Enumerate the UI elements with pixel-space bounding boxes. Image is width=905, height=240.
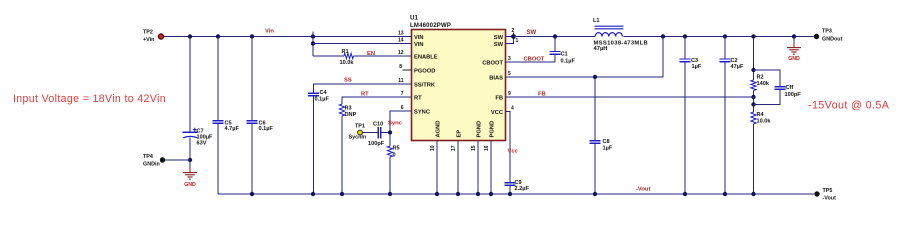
svg-text:SW: SW — [527, 30, 537, 36]
svg-text:Vin: Vin — [265, 29, 274, 35]
svg-text:0.1µF: 0.1µF — [561, 58, 576, 64]
svg-text:TP1: TP1 — [355, 124, 365, 130]
wire C7 top vertical — [189, 37, 191, 133]
wire R2 bottom to FB — [753, 91, 755, 98]
junction -Vout/R4 — [751, 192, 755, 196]
wire SYNC pin6 — [390, 111, 412, 133]
svg-text:R3: R3 — [345, 106, 352, 112]
wire C7 bottom vertical — [189, 138, 191, 161]
junction -Vout/pin15 — [476, 192, 480, 196]
capacitor C3 — [680, 58, 691, 60]
svg-text:47µF: 47µF — [731, 64, 744, 70]
svg-text:14: 14 — [398, 38, 404, 44]
junction R2 top rail — [751, 34, 755, 38]
wire Vin branch vertical — [312, 32, 314, 57]
svg-text:PGND: PGND — [477, 121, 483, 138]
junction Vin/C5 — [216, 34, 220, 38]
wire C3 vertical bottom — [684, 62, 686, 194]
wire Sync node to R5 — [389, 133, 391, 147]
wire FB — [506, 96, 754, 98]
wire GND rail L1 to TP3 — [624, 36, 814, 38]
svg-text:PGND: PGND — [490, 121, 496, 138]
test point TP3 GNDout — [814, 34, 819, 39]
wire SS — [314, 84, 412, 93]
wire FB node to lower node — [753, 97, 755, 105]
svg-text:C2: C2 — [731, 58, 738, 64]
resistor R1 — [344, 53, 354, 58]
svg-text:RT: RT — [414, 96, 422, 102]
wire PGND lead pin15 — [477, 141, 479, 195]
wire TP4 to GND node — [165, 159, 190, 161]
junction -Vout/pin17 — [456, 192, 460, 196]
resistor R2 — [751, 80, 756, 91]
svg-text:8: 8 — [399, 64, 402, 70]
svg-text:15: 15 — [471, 145, 477, 151]
wire EN left segment — [313, 55, 344, 57]
wire R4 bottom vertical — [753, 124, 755, 194]
svg-text:16: 16 — [484, 145, 490, 151]
wire C5 top vertical — [217, 37, 219, 121]
svg-text:11: 11 — [398, 78, 404, 84]
test point TP1 SycnIn — [358, 130, 363, 135]
capacitor C4 — [308, 92, 319, 94]
wire C8 bottom vertical — [594, 143, 596, 194]
svg-text:Cff: Cff — [786, 85, 794, 91]
svg-text:TP5: TP5 — [823, 188, 833, 194]
junction Vin/C6 — [250, 34, 254, 38]
svg-text:10.0k: 10.0k — [757, 119, 772, 125]
svg-text:2.2µF: 2.2µF — [515, 186, 530, 192]
wire C10 to Sync node — [381, 132, 390, 134]
svg-text:LM46002PWP: LM46002PWP — [410, 23, 451, 29]
svg-text:-Vout: -Vout — [636, 187, 650, 193]
svg-text:140k: 140k — [757, 81, 770, 87]
wire C3 vertical top — [684, 37, 686, 60]
junction -Vout/C6 — [250, 192, 254, 196]
svg-text:4.7µF: 4.7µF — [225, 126, 240, 132]
svg-text:SW: SW — [494, 35, 504, 41]
wire SW pin stubs — [506, 36, 514, 38]
svg-text:GND: GND — [184, 182, 196, 188]
junction -Vout/C2 — [723, 192, 727, 196]
svg-text:+Vin: +Vin — [143, 37, 154, 43]
svg-text:SW: SW — [494, 42, 504, 48]
svg-text:VIN: VIN — [414, 35, 424, 41]
wire PGND lead pin16 — [490, 141, 492, 195]
wire EN right segment — [354, 55, 412, 57]
svg-text:AGND: AGND — [436, 121, 442, 138]
junction -Vout/pin10 — [435, 192, 439, 196]
capacitor C6 — [247, 120, 258, 122]
junction -Vout/C3 — [683, 192, 687, 196]
wire RT — [342, 97, 412, 104]
svg-text:R5: R5 — [393, 146, 400, 152]
svg-text:C8: C8 — [603, 139, 610, 145]
svg-text:3: 3 — [508, 56, 511, 62]
junction -Vout/C4 — [311, 192, 315, 196]
junction SW/C1 — [553, 34, 557, 38]
svg-text:RT: RT — [361, 92, 369, 98]
test point TP5 -Vout — [814, 191, 819, 196]
svg-text:FB: FB — [538, 92, 546, 98]
svg-text:63V: 63V — [197, 141, 207, 147]
svg-text:0: 0 — [393, 153, 396, 159]
svg-text:5: 5 — [508, 71, 511, 77]
svg-text:6: 6 — [401, 105, 404, 111]
svg-text:C10: C10 — [373, 122, 383, 128]
junction C2 top — [723, 34, 727, 38]
wire VIN pin 14 — [313, 43, 412, 45]
svg-text:CBOOT: CBOOT — [482, 61, 503, 67]
junction Sync node — [388, 130, 392, 134]
svg-text:SYNC: SYNC — [414, 110, 430, 116]
junction -Vout/R5 — [388, 192, 392, 196]
svg-text:GNDout: GNDout — [822, 37, 843, 43]
svg-text:7: 7 — [401, 91, 404, 97]
capacitor C5 — [213, 120, 224, 122]
svg-text:C1: C1 — [561, 52, 568, 58]
svg-text:R2: R2 — [757, 75, 764, 81]
resistor R5 — [387, 146, 392, 157]
svg-text:4: 4 — [511, 106, 514, 112]
test point TP2 +Vin — [158, 34, 163, 39]
junction C3 top — [683, 34, 687, 38]
wire EP lead pin17 — [457, 141, 459, 195]
junction -Vout/R3 — [340, 192, 344, 196]
svg-text:FB: FB — [495, 96, 503, 102]
junction TP4/GND node — [188, 158, 192, 162]
op-amp U1 LM46002PWP body — [412, 30, 506, 141]
junction -Vout/C9 — [508, 192, 512, 196]
wire VCC stub — [506, 112, 511, 183]
svg-text:R1: R1 — [342, 49, 349, 55]
svg-text:TP3: TP3 — [822, 29, 832, 35]
capacitor C2 — [720, 58, 731, 60]
wire BIAS — [506, 37, 664, 78]
svg-text:Input Voltage = 18Vin to 42Vin: Input Voltage = 18Vin to 42Vin — [13, 93, 166, 105]
junction Cff bottom node — [751, 102, 755, 106]
capacitor C9 — [505, 182, 516, 184]
ground symbol GND output — [793, 37, 795, 43]
wire rail to R2 top — [753, 37, 755, 81]
wire R3 bottom vertical — [341, 116, 343, 194]
svg-text:CBOOT: CBOOT — [524, 57, 545, 63]
junction BIAS/C8 — [593, 75, 597, 79]
svg-text:Vcc: Vcc — [508, 149, 519, 155]
svg-text:13: 13 — [398, 31, 404, 37]
svg-text:BIAS: BIAS — [489, 76, 503, 82]
wire C9 bottom vertical — [509, 185, 511, 194]
wire TP1 to C10 — [363, 132, 378, 134]
junction GND symbol — [792, 34, 796, 38]
svg-text:EN: EN — [367, 51, 375, 57]
wire C8 top vertical — [594, 77, 596, 141]
wire C1 to CBOOT — [554, 54, 556, 62]
wire lower node to R4 — [753, 105, 755, 113]
wire Vin rail top — [164, 36, 412, 38]
wire R5 bottom vertical — [389, 157, 391, 194]
wire C6 bottom vertical — [251, 123, 253, 194]
junction BIAS riser — [661, 34, 665, 38]
svg-text:12: 12 — [398, 50, 404, 56]
junction SW pins — [511, 34, 516, 39]
svg-text:TP2: TP2 — [143, 30, 153, 36]
capacitor C7 polarized — [183, 131, 198, 133]
svg-text:PGOOD: PGOOD — [414, 69, 435, 75]
capacitor C1 — [554, 37, 556, 52]
svg-text:ENABLE: ENABLE — [414, 55, 438, 61]
svg-text:-15Vout @ 0.5A: -15Vout @ 0.5A — [808, 100, 890, 112]
svg-text:VIN: VIN — [414, 42, 424, 48]
capacitor C10 — [377, 127, 379, 138]
svg-text:9: 9 — [508, 91, 511, 97]
svg-text:0.1µF: 0.1µF — [315, 97, 330, 103]
svg-text:17: 17 — [451, 145, 457, 151]
svg-text:SS: SS — [344, 78, 352, 84]
svg-text:100pF: 100pF — [785, 92, 802, 98]
junction Vin/C7 — [188, 34, 192, 38]
svg-text:GND: GND — [788, 56, 800, 62]
test point TP4 GNDin — [160, 157, 165, 162]
svg-text:U1: U1 — [410, 15, 418, 22]
junction Vin branch upper — [311, 34, 315, 38]
svg-text:L1: L1 — [593, 18, 600, 24]
svg-text:GNDin: GNDin — [143, 162, 160, 168]
junction FB node — [751, 95, 755, 99]
svg-text:1µF: 1µF — [692, 64, 702, 70]
svg-text:1µF: 1µF — [603, 146, 613, 152]
wire C5 bottom vertical — [217, 123, 219, 194]
capacitor Cff branch — [754, 70, 781, 87]
svg-text:Sync: Sync — [388, 121, 403, 127]
junction Vin branch lower — [311, 41, 315, 45]
capacitor C8 — [590, 140, 601, 142]
svg-text:VCC: VCC — [491, 110, 503, 116]
svg-text:C3: C3 — [691, 58, 698, 64]
pin 8 stub unconnected — [403, 69, 412, 71]
wire C6 top vertical — [251, 37, 253, 121]
inductor L1 — [595, 26, 624, 36]
junction -Vout/C8 — [593, 192, 597, 196]
wire C2 vertical top — [724, 37, 726, 60]
svg-text:0.1µF: 0.1µF — [259, 126, 274, 132]
resistor R4 — [751, 112, 756, 124]
svg-text:SycnIn: SycnIn — [349, 135, 367, 141]
svg-text:R4: R4 — [757, 112, 765, 118]
svg-text:10: 10 — [430, 145, 436, 151]
wire CBOOT — [506, 61, 556, 63]
svg-text:DNP: DNP — [345, 112, 357, 118]
wire SW to L1 — [514, 36, 596, 38]
svg-text:-Vout: -Vout — [823, 196, 837, 202]
svg-text:100pF: 100pF — [368, 141, 385, 147]
svg-text:47µH: 47µH — [594, 46, 608, 52]
junction -Vout/pin16 — [489, 192, 493, 196]
svg-text:SS/TRK: SS/TRK — [414, 83, 436, 89]
wire C2 vertical bottom — [724, 62, 726, 194]
svg-text:10.0k: 10.0k — [340, 60, 355, 66]
wire -Vout rail — [218, 193, 814, 195]
resistor R3 — [339, 104, 344, 116]
svg-text:EP: EP — [457, 130, 463, 138]
ground symbol GND input — [189, 160, 191, 168]
svg-text:1: 1 — [516, 38, 519, 44]
wire C4 bottom vertical — [313, 96, 315, 194]
svg-text:C4: C4 — [320, 90, 328, 96]
svg-text:TP4: TP4 — [143, 154, 153, 160]
wire AGND lead pin10 — [436, 141, 438, 195]
junction R2 top node — [751, 68, 755, 72]
